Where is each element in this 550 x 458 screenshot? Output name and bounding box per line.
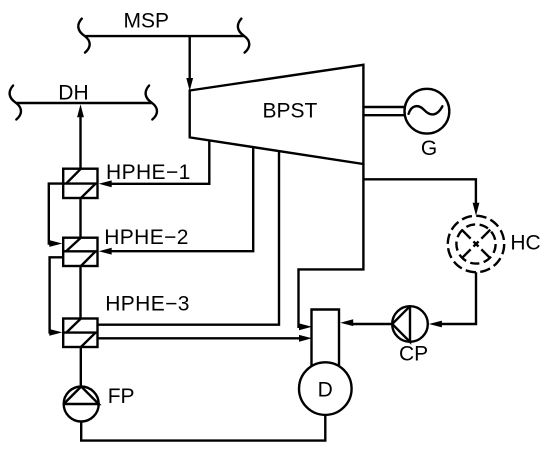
wire MSP to turbine inlet xyxy=(188,36,190,79)
deaerator column rect xyxy=(312,310,340,369)
HPHE-1 internal diagonal upper xyxy=(66,169,81,184)
HPHE-2 internal diagonal lower xyxy=(81,252,96,267)
wire HC to CP xyxy=(442,272,477,324)
svg-text:D: D xyxy=(318,378,333,401)
heat exchanger HPHE-3 xyxy=(63,319,97,348)
arrow into HPHE-3 left xyxy=(49,329,62,336)
arrow into deaerator lower left xyxy=(299,335,312,342)
HPHE-1 internal middle line xyxy=(63,182,97,184)
svg-text:CP: CP xyxy=(399,342,428,365)
wire turbine exhaust to deaerator xyxy=(299,164,364,327)
heat consumer HC outer dashed circle xyxy=(448,216,504,272)
deaerator vessel D xyxy=(299,362,352,415)
HPHE-3 internal diagonal upper xyxy=(66,319,81,333)
HC cross diagonal 1 xyxy=(462,230,491,259)
svg-text:G: G xyxy=(421,137,437,160)
arrow into HPHE-2 right xyxy=(99,248,112,255)
arrow into HC top xyxy=(473,203,480,216)
FP triangle xyxy=(64,387,99,405)
generator G xyxy=(405,89,450,134)
HC inner dashed circle xyxy=(456,224,495,263)
sine wave inside generator xyxy=(409,106,443,114)
break symbol right of MSP line xyxy=(238,19,249,53)
arrow into deaerator right xyxy=(340,319,353,326)
svg-text:MSP: MSP xyxy=(124,9,170,32)
CP triangle xyxy=(392,306,410,342)
svg-text:BPST: BPST xyxy=(263,99,318,122)
HPHE-1 internal diagonal lower xyxy=(81,184,96,198)
HPHE-2 internal diagonal upper xyxy=(66,238,81,252)
wire drain HPHE-2 to HPHE-3 xyxy=(50,257,64,332)
wire FP to HPHE-3 xyxy=(80,347,82,388)
svg-text:HPHE−3: HPHE−3 xyxy=(105,293,190,316)
node DH line xyxy=(16,102,152,104)
arrow into CP right xyxy=(429,321,442,328)
svg-text:HPHE−2: HPHE−2 xyxy=(104,226,189,249)
arrow into turbine inlet xyxy=(186,78,193,91)
break symbol right of DH line xyxy=(146,86,157,120)
wire drain HPHE-3 to deaerator xyxy=(98,337,300,339)
wire feedwater HPHE-1 to DH xyxy=(79,117,81,169)
wire extraction 1 turbine to HPHE-1 xyxy=(111,140,209,183)
arrow into HPHE-1 right xyxy=(99,180,112,187)
svg-text:HPHE−1: HPHE−1 xyxy=(106,161,191,184)
wire feedwater HPHE-3 to HPHE-2 xyxy=(79,266,81,319)
HPHE-2 internal middle line xyxy=(63,250,97,252)
arrow into deaerator upper left xyxy=(299,323,312,330)
break symbol left of DH line xyxy=(10,86,21,120)
HPHE-3 internal diagonal lower xyxy=(81,333,96,347)
wire feedwater HPHE-2 to HPHE-1 xyxy=(79,198,81,238)
svg-text:DH: DH xyxy=(58,82,88,105)
node MSP supply line xyxy=(85,35,245,37)
wire extraction 2 turbine to HPHE-2 xyxy=(111,147,253,251)
arrow into HPHE-2 left xyxy=(49,240,62,247)
svg-text:FP: FP xyxy=(108,385,135,408)
shaft turbine to generator xyxy=(365,106,405,108)
heat exchanger HPHE-2 xyxy=(63,238,97,266)
svg-text:HC: HC xyxy=(510,232,540,255)
heat exchanger HPHE-1 xyxy=(63,169,97,198)
wire drain HPHE-1 to HPHE-2 xyxy=(49,184,63,244)
turbine U1 BPST xyxy=(190,65,364,164)
HC cross diagonal 2 xyxy=(462,230,491,259)
pump CP circle xyxy=(392,306,428,342)
pump FP circle xyxy=(64,387,99,422)
wire deaerator to bottom line to FP xyxy=(81,415,325,441)
HPHE-3 internal middle line xyxy=(63,331,97,333)
break symbol left of MSP line xyxy=(78,19,89,53)
wire extraction 3 turbine to HPHE-3 xyxy=(98,151,280,325)
wire turbine exhaust to HC xyxy=(363,179,476,203)
arrow into DH line xyxy=(77,104,84,117)
wire CP to deaerator xyxy=(353,323,392,325)
